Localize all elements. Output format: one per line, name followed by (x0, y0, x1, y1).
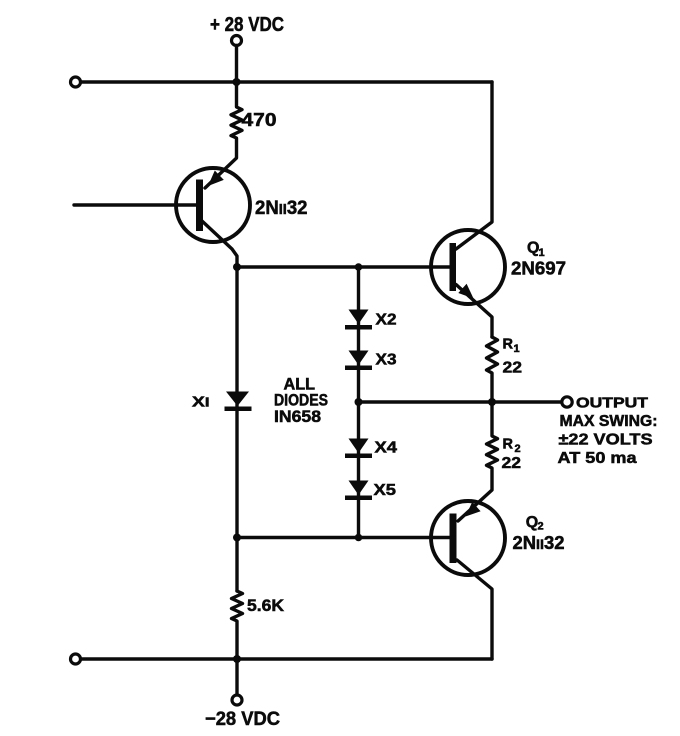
label Q2 (526, 514, 544, 533)
svg-text:X4: X4 (375, 440, 398, 457)
wire +28 terminal to top rail (235, 46, 238, 83)
svg-text:2N697: 2N697 (511, 259, 566, 279)
label R2 value 22 (502, 455, 522, 472)
node bottom rail junction (233, 655, 241, 663)
label 2N697 (511, 259, 566, 279)
diode X1 (225, 392, 252, 412)
wire to -28 terminal (235, 659, 238, 695)
resistor 5.6K (232, 591, 243, 659)
transistor 2N1132 driver: emitter arrow (208, 171, 224, 187)
svg-text:22: 22 (502, 455, 522, 472)
svg-text:X3: X3 (376, 352, 397, 369)
label MAX SWING: (560, 413, 658, 430)
svg-text:5.6K: 5.6K (247, 596, 285, 615)
wire output (359, 400, 562, 403)
svg-text:AT 50 ma: AT 50 ma (558, 450, 637, 467)
label R1 (503, 337, 520, 356)
wire diode string vertical (357, 267, 360, 538)
wire top rail (81, 80, 492, 83)
terminal +28VDC (232, 36, 242, 46)
label Q1 (527, 240, 545, 260)
node diode string / output (355, 398, 363, 406)
diode X5 (345, 481, 372, 501)
label +28 VDC (210, 14, 284, 36)
label 2N1132 driver (255, 198, 308, 219)
label 470 (242, 110, 277, 130)
node diode string bottom (355, 534, 363, 542)
label R2 (503, 437, 521, 456)
svg-text:2: 2 (538, 521, 544, 533)
diode X4 (345, 439, 372, 459)
label X2 (376, 312, 397, 329)
wire lower junction to Q2 base (237, 536, 450, 539)
svg-text:R: R (503, 337, 514, 353)
wire left column upper (235, 267, 238, 591)
svg-text:+ 28 VDC: + 28 VDC (210, 14, 284, 36)
svg-text:−28 VDC: −28 VDC (205, 709, 280, 730)
node diode string top (355, 263, 363, 271)
svg-text:MAX SWING:: MAX SWING: (560, 413, 658, 430)
svg-text:22: 22 (503, 360, 523, 377)
resistor R2 (458, 402, 498, 521)
terminal top-left (71, 77, 81, 87)
svg-text:X2: X2 (376, 312, 397, 329)
label OUTPUT (576, 396, 648, 412)
label ALL DIODES IN658 (274, 376, 328, 427)
transistor Q2: circle (431, 501, 505, 575)
node left column lower junction (233, 534, 241, 542)
label 2N1132 Q2 (513, 533, 565, 553)
terminal output (562, 397, 572, 407)
svg-text:R: R (503, 437, 514, 453)
transistor Q1: emitter arrow (458, 284, 473, 299)
node output junction (488, 398, 496, 406)
diode X3 (345, 351, 372, 371)
terminal -28VDC (232, 695, 242, 705)
terminal bottom-left (71, 654, 81, 664)
svg-text:X5: X5 (374, 482, 397, 499)
wire driver collector to Q1 base (237, 265, 450, 268)
label X3 (376, 352, 397, 369)
node below driver (233, 263, 241, 271)
diode X2 (345, 310, 372, 330)
label 5.6K (247, 596, 285, 615)
svg-text:OUTPUT: OUTPUT (576, 396, 648, 412)
wire Q1 collector from top rail (456, 82, 492, 249)
svg-text:2NII32: 2NII32 (513, 533, 565, 553)
node top rail junction (233, 78, 241, 86)
transistor Q2: base bar (450, 514, 457, 564)
transistor Q1: emitter lead (456, 285, 492, 338)
transistor Q2: collector lead (457, 560, 492, 659)
resistor R1 (487, 337, 498, 402)
svg-text:DIODES: DIODES (274, 392, 328, 410)
svg-text:470: 470 (242, 110, 277, 130)
resistor 470 (205, 82, 242, 188)
svg-text:±22 VOLTS: ±22 VOLTS (559, 432, 653, 449)
svg-text:2NII32: 2NII32 (255, 198, 308, 219)
svg-text:Q: Q (526, 514, 538, 531)
label X5 (374, 482, 397, 499)
svg-text:1: 1 (539, 247, 545, 259)
transistor Q1: circle (431, 230, 505, 304)
svg-text:IN658: IN658 (274, 408, 321, 426)
label R1 value 22 (503, 360, 523, 377)
wire bottom rail (81, 657, 492, 660)
transistor 2N1132 driver: collector lead (202, 221, 237, 267)
label -28 VDC (205, 709, 280, 730)
wire base lead input (74, 203, 196, 206)
label X1 (192, 394, 210, 411)
transistor Q1: base bar (450, 243, 457, 291)
label +-22 VOLTS (559, 432, 653, 449)
svg-text:2: 2 (515, 443, 521, 455)
svg-text:XI: XI (192, 394, 210, 411)
transistor 2N1132 driver: base bar (196, 180, 203, 232)
transistor Q2: emitter arrow (466, 502, 481, 517)
label AT 50 ma (558, 450, 637, 467)
transistor 2N1132 driver: circle (176, 168, 250, 242)
label X4 (375, 440, 398, 457)
svg-text:1: 1 (514, 343, 520, 355)
